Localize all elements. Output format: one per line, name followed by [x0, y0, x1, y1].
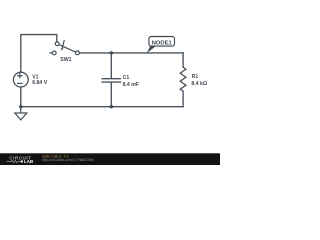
node label NODE1 — [147, 37, 175, 54]
capacitor C1 — [102, 79, 122, 82]
wire: right rail lower (resistor bottom to corner) — [182, 91, 184, 107]
svg-text:http://circuitlab.com/c/77fk8h: http://circuitlab.com/c/77fk8h235rb — [42, 158, 94, 162]
node dot: capacitor top junction — [110, 51, 113, 54]
wire: left rail top (V1 top to top-left corner, across to switch) — [21, 35, 57, 73]
svg-text:SW1: SW1 — [60, 57, 71, 63]
node dot: capacitor bottom junction — [110, 105, 113, 108]
switch SW1 — [49, 40, 79, 55]
voltage source V1 — [13, 72, 28, 87]
wire: left rail bottom (V1 bottom to ground node) — [20, 87, 22, 107]
watermark bar — [0, 153, 220, 165]
logo wire+LAB — [7, 159, 34, 164]
resistor R1 — [180, 67, 186, 91]
svg-text:8.4 mF: 8.4 mF — [123, 82, 139, 88]
ground — [15, 107, 27, 120]
svg-text:LAB: LAB — [24, 159, 34, 164]
wire: capacitor top branch — [110, 53, 112, 78]
svg-text:C1: C1 — [123, 75, 130, 81]
switch SW1 arrowhead — [61, 48, 64, 51]
svg-text:NODE1: NODE1 — [152, 40, 173, 46]
wire: right rail upper (to resistor top) — [182, 53, 184, 67]
wire: switch common to right corner — [79, 52, 183, 54]
svg-text:R1: R1 — [192, 74, 199, 80]
svg-text:6.84 V: 6.84 V — [32, 80, 48, 86]
node dot: ground junction — [19, 105, 22, 108]
svg-text:8.4 kΩ: 8.4 kΩ — [191, 81, 207, 87]
wire: bottom rail — [21, 106, 183, 108]
wire: capacitor bottom branch — [110, 83, 112, 107]
